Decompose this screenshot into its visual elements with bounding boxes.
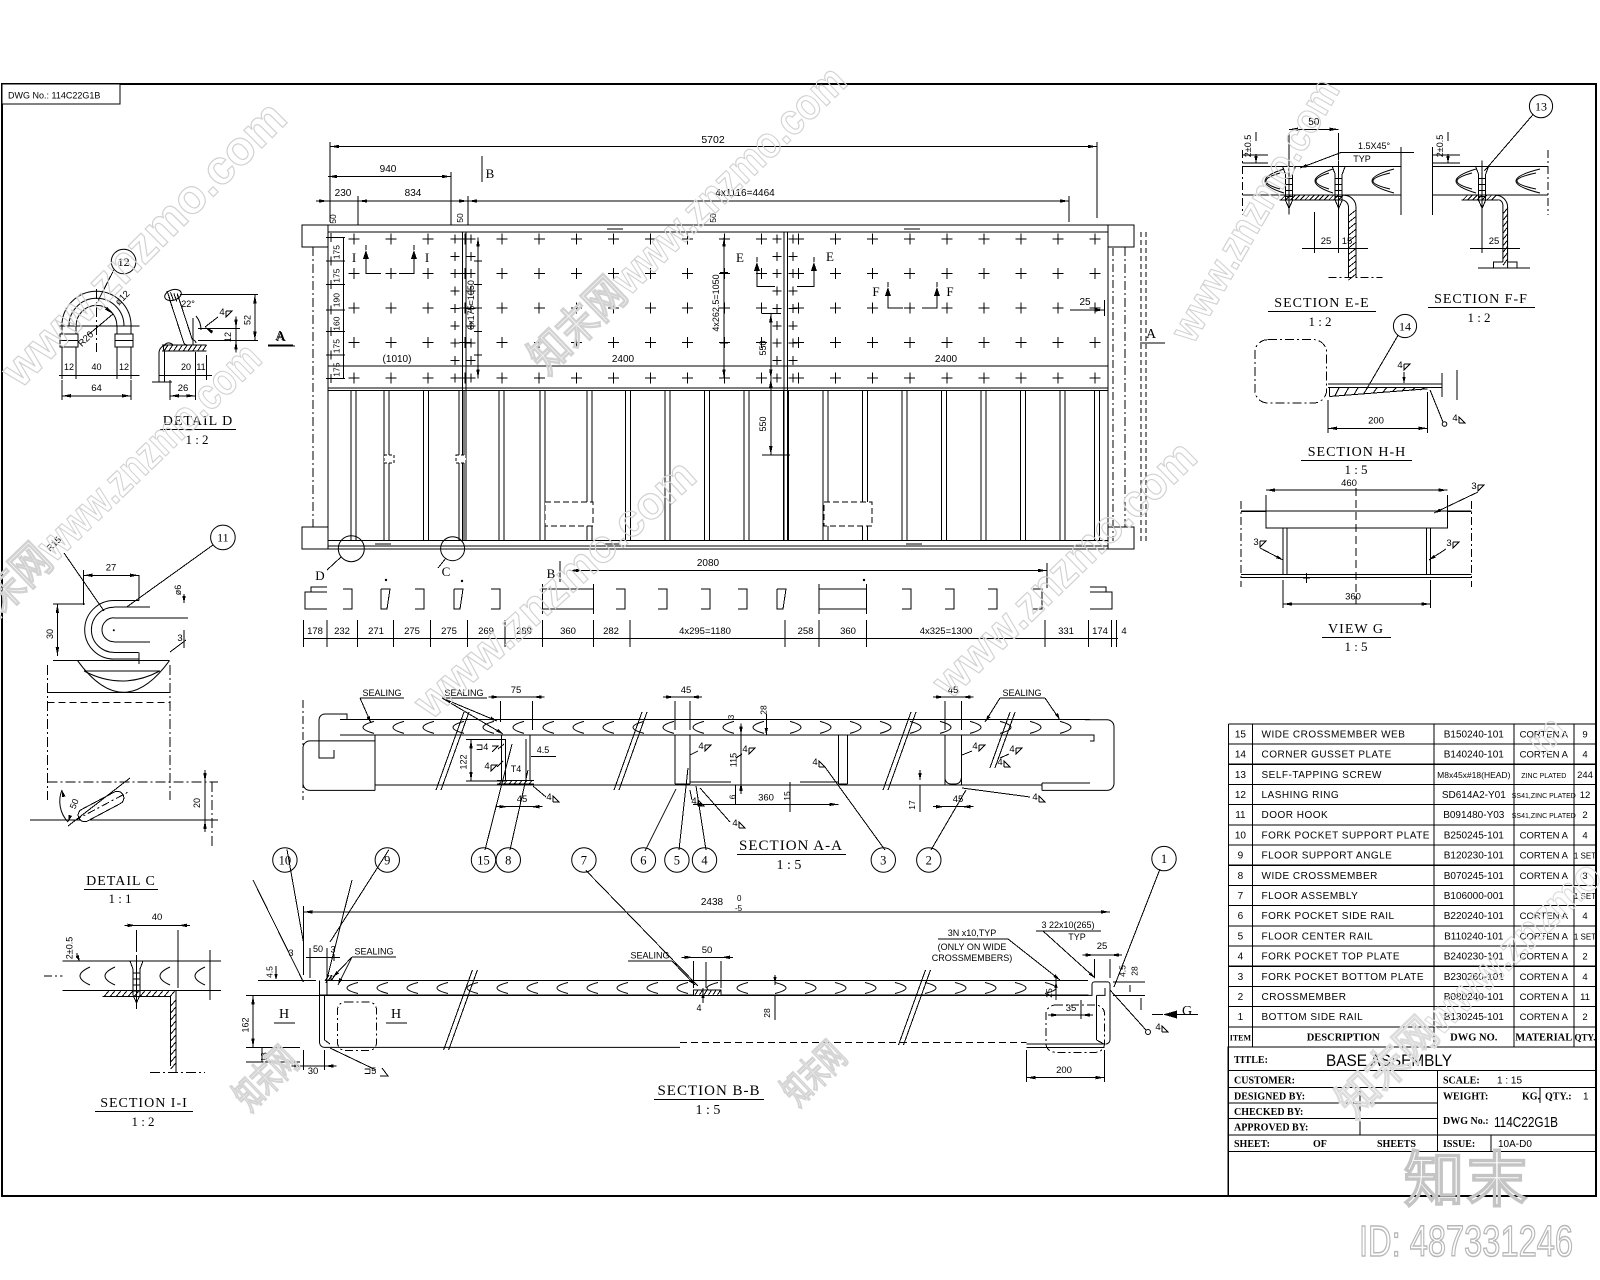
svg-text:⊐4: ⊐4	[476, 742, 489, 752]
svg-text:3N x10,TYP: 3N x10,TYP	[948, 928, 997, 938]
svg-text:360: 360	[1345, 592, 1361, 603]
view G weld symbols 3	[1253, 481, 1484, 560]
door hook detail drawing	[53, 575, 188, 692]
svg-text:B140240-101: B140240-101	[1444, 750, 1504, 761]
svg-text:SECTION F-F: SECTION F-F	[1434, 292, 1528, 307]
svg-text:3: 3	[1446, 538, 1451, 549]
svg-text:3 22x10(265): 3 22x10(265)	[1041, 920, 1094, 930]
svg-text:2±0.5: 2±0.5	[65, 937, 75, 959]
svg-text:C: C	[442, 564, 451, 579]
svg-text:230: 230	[335, 188, 352, 199]
svg-text:4: 4	[1452, 413, 1457, 424]
svg-text:H: H	[279, 1007, 289, 1022]
svg-text:4: 4	[972, 741, 977, 752]
svg-text:F: F	[872, 284, 879, 299]
section cut F-F markers	[872, 282, 953, 308]
svg-text:4: 4	[732, 818, 737, 829]
svg-text:4: 4	[219, 307, 224, 318]
svg-text:7: 7	[581, 854, 587, 868]
plan view - floor assembly outline	[328, 225, 1108, 549]
svg-text:CHECKED BY:: CHECKED BY:	[1234, 1107, 1303, 1118]
balloon 12	[98, 249, 136, 300]
svg-text:FORK POCKET BOTTOM PLATE: FORK POCKET BOTTOM PLATE	[1262, 972, 1425, 983]
plan labels 1010 2400 2400	[383, 354, 958, 365]
svg-text:(ONLY ON WIDE: (ONLY ON WIDE	[938, 942, 1007, 952]
section B-B balloon 1	[1114, 846, 1176, 987]
detail D side dims 20 11 26	[159, 352, 212, 400]
svg-text:KG.: KG.	[1522, 1092, 1541, 1103]
svg-text:64: 64	[91, 383, 102, 394]
svg-text:SECTION B-B: SECTION B-B	[657, 1083, 760, 1099]
svg-text:12: 12	[64, 362, 74, 372]
svg-text:940: 940	[380, 164, 397, 175]
section A-A crossmember cut right	[907, 685, 1045, 812]
view G drawing	[1241, 478, 1472, 604]
svg-text:知末: 知末	[1404, 1147, 1530, 1214]
svg-text:SELF-TAPPING SCREW: SELF-TAPPING SCREW	[1262, 770, 1383, 781]
svg-text:25: 25	[1044, 988, 1054, 998]
plan sheet joint lines	[463, 232, 788, 541]
svg-text:550: 550	[758, 340, 768, 355]
svg-text:1 : 5: 1 : 5	[1344, 639, 1367, 654]
section E-E dims	[1243, 117, 1414, 253]
section H-H drawing	[1255, 340, 1465, 427]
svg-text:35: 35	[1066, 1003, 1077, 1014]
svg-text:3: 3	[177, 633, 182, 644]
SECTION F-F title	[1428, 292, 1535, 325]
section B-B left dims 3 50 3 4.5 162 13 30 weld5	[241, 944, 389, 1077]
svg-text:FLOOR CENTER RAIL: FLOOR CENTER RAIL	[1262, 931, 1374, 942]
svg-text:2: 2	[1582, 1012, 1587, 1023]
section cut I-I markers	[352, 245, 429, 274]
svg-text:CORTEN A: CORTEN A	[1520, 972, 1569, 983]
svg-text:4x262.5=1050: 4x262.5=1050	[711, 274, 721, 331]
svg-text:11: 11	[1580, 992, 1590, 1003]
svg-text:14: 14	[1235, 750, 1247, 761]
svg-text:MATERIAL: MATERIAL	[1515, 1032, 1572, 1043]
svg-text:B150240-101: B150240-101	[1444, 729, 1504, 740]
detail C drawing (screw through floor into angle)	[44, 950, 221, 1072]
svg-text:SD614A2-Y01: SD614A2-Y01	[1442, 790, 1506, 801]
svg-text:QTY.:: QTY.:	[1545, 1092, 1572, 1103]
section F-F drawing	[1432, 147, 1548, 268]
svg-text:4: 4	[1121, 626, 1126, 637]
svg-text:15: 15	[477, 854, 490, 868]
svg-text:40: 40	[152, 912, 163, 923]
svg-text:4: 4	[484, 761, 489, 772]
svg-text:1: 1	[1238, 1012, 1244, 1023]
svg-text:25: 25	[1489, 236, 1500, 247]
section A-A fork pocket side rail cuts and 360 dim	[663, 685, 847, 829]
plan fork pocket hidden rectangles	[384, 455, 872, 526]
svg-text:50: 50	[702, 945, 713, 956]
svg-text:6: 6	[1238, 911, 1244, 922]
svg-text:G: G	[1182, 1004, 1192, 1019]
svg-text:2080: 2080	[697, 558, 720, 569]
section A-A break marks	[436, 712, 1015, 790]
svg-text:5: 5	[674, 854, 680, 868]
detail D dims 12 40 12 64	[59, 362, 139, 400]
DETAIL D title	[160, 414, 236, 447]
svg-text:DESIGNED BY:: DESIGNED BY:	[1234, 1092, 1305, 1103]
svg-text:A: A	[276, 330, 287, 345]
lashing ring position detail	[30, 665, 218, 846]
svg-text:ø6: ø6	[173, 585, 183, 596]
detail circle D on bottom rail	[315, 536, 364, 583]
svg-text:SEALING: SEALING	[1002, 688, 1041, 698]
section A-A dims 75 122 4.5 45 at wide crossmember	[459, 685, 560, 808]
plan left dimension column 175/190/160	[326, 214, 345, 378]
svg-text:ITEM: ITEM	[1230, 1033, 1252, 1042]
svg-text:E: E	[826, 249, 834, 264]
svg-text:DETAIL C: DETAIL C	[86, 874, 156, 889]
svg-text:FORK POCKET SUPPORT PLATE: FORK POCKET SUPPORT PLATE	[1262, 830, 1430, 841]
svg-text:OF: OF	[1313, 1139, 1327, 1150]
plan internal vertical dims 6x175 4x262.5 550 550	[466, 237, 790, 455]
svg-text:22°: 22°	[181, 299, 195, 309]
svg-text:SECTION A-A: SECTION A-A	[739, 838, 843, 854]
svg-text:CROSSMEMBER: CROSSMEMBER	[1262, 992, 1347, 1003]
VIEW G title	[1322, 622, 1391, 654]
plan right side dim 25 and A marker	[1070, 232, 1165, 541]
svg-text:CORTEN A: CORTEN A	[1520, 851, 1569, 862]
svg-text:SHEET:: SHEET:	[1234, 1139, 1270, 1150]
svg-text:QTY.: QTY.	[1575, 1032, 1596, 1042]
svg-text:4: 4	[997, 757, 1002, 768]
DETAIL C title	[84, 874, 158, 906]
svg-text:5: 5	[1238, 931, 1244, 942]
section B-B dim 2438	[303, 894, 1110, 975]
svg-text:SS41,ZINC PLATED: SS41,ZINC PLATED	[1512, 813, 1576, 820]
svg-text:4: 4	[1009, 744, 1014, 755]
svg-text:13: 13	[1535, 100, 1547, 114]
title block	[1228, 1047, 1596, 1196]
svg-text:162: 162	[241, 1017, 251, 1032]
svg-text:25: 25	[1321, 236, 1332, 247]
svg-text:4: 4	[1032, 792, 1037, 803]
svg-text:3: 3	[1238, 972, 1244, 983]
svg-text:4: 4	[1582, 972, 1587, 983]
svg-text:TYP: TYP	[1068, 932, 1086, 942]
svg-text:F: F	[946, 284, 953, 299]
svg-text:550: 550	[758, 416, 768, 431]
svg-text:I: I	[352, 250, 356, 265]
svg-text:115: 115	[729, 753, 739, 767]
section B-B SEALING left label	[333, 947, 396, 986]
plan weld dashes on rails	[375, 229, 922, 544]
svg-text:460: 460	[1341, 478, 1357, 489]
svg-text:175: 175	[332, 339, 342, 353]
svg-text:11: 11	[217, 531, 229, 545]
svg-text:9: 9	[1582, 729, 1587, 740]
door hook dims 27 30 R15 diam6 3	[45, 535, 186, 657]
SECTION B-B title	[654, 1083, 764, 1118]
svg-text:TITLE:: TITLE:	[1234, 1055, 1268, 1066]
svg-text:12: 12	[1580, 790, 1591, 801]
svg-text:B: B	[486, 166, 495, 181]
svg-text:-5: -5	[735, 904, 743, 913]
section A-A left side rail profile	[303, 700, 375, 800]
section B-B right dims and notes	[932, 920, 1198, 1082]
svg-text:BOTTOM SIDE RAIL: BOTTOM SIDE RAIL	[1262, 1012, 1364, 1023]
svg-text:1 : 2: 1 : 2	[131, 1114, 154, 1129]
svg-text:12: 12	[1235, 790, 1247, 801]
svg-text:1 : 1: 1 : 1	[108, 891, 131, 906]
section B-B left end rail	[303, 975, 680, 1051]
svg-text:50: 50	[313, 944, 323, 954]
section B-B H markers	[274, 1007, 407, 1023]
svg-text:B070245-101: B070245-101	[1444, 871, 1504, 882]
svg-text:FORK POCKET TOP PLATE: FORK POCKET TOP PLATE	[1262, 952, 1401, 963]
svg-text:28: 28	[762, 1008, 772, 1018]
balloon 13	[1484, 95, 1552, 171]
svg-text:DWG No.:: DWG No.:	[1443, 1116, 1489, 1127]
SECTION H-H title	[1301, 445, 1412, 477]
svg-text:360: 360	[840, 626, 856, 637]
svg-text:1 : 5: 1 : 5	[1344, 462, 1367, 477]
svg-text:14: 14	[1399, 319, 1411, 333]
svg-text:WIDE CROSSMEMBER WEB: WIDE CROSSMEMBER WEB	[1262, 729, 1406, 740]
svg-text:2: 2	[1582, 952, 1587, 963]
svg-text:12: 12	[119, 362, 129, 372]
svg-text:E: E	[736, 250, 744, 265]
svg-text:I: I	[425, 250, 429, 265]
svg-text:4.5: 4.5	[537, 745, 550, 755]
svg-text:4: 4	[696, 1003, 701, 1013]
svg-text:8: 8	[1238, 871, 1244, 882]
svg-text:M8x45x#18(HEAD): M8x45x#18(HEAD)	[1437, 770, 1510, 780]
svg-text:4: 4	[742, 744, 747, 755]
detail D side view (hook bolt)	[152, 288, 207, 382]
svg-text:DESCRIPTION: DESCRIPTION	[1307, 1032, 1380, 1043]
svg-text:6: 6	[640, 854, 646, 868]
svg-text:2400: 2400	[612, 354, 635, 365]
svg-text:175: 175	[332, 268, 342, 282]
svg-text:25: 25	[1097, 941, 1108, 952]
section cut E-E markers	[736, 249, 834, 287]
SECTION E-E title	[1268, 296, 1376, 329]
svg-text:28: 28	[758, 705, 768, 715]
svg-text:TYP: TYP	[1353, 154, 1371, 164]
svg-text:15: 15	[1235, 729, 1247, 740]
svg-text:360: 360	[758, 793, 774, 804]
svg-text:B106000-001: B106000-001	[1444, 891, 1504, 902]
svg-text:2: 2	[1582, 810, 1587, 821]
svg-text:2438: 2438	[701, 897, 724, 908]
svg-text:282: 282	[603, 626, 619, 637]
svg-text:275: 275	[404, 626, 420, 637]
svg-text:15: 15	[1342, 236, 1353, 247]
svg-text:160: 160	[332, 316, 342, 330]
svg-text:1 : 2: 1 : 2	[1467, 310, 1490, 325]
svg-text:40: 40	[91, 362, 101, 372]
left A marker	[268, 329, 293, 345]
balloon 11	[126, 525, 235, 607]
svg-text:D: D	[315, 568, 324, 583]
section cut B top	[482, 156, 495, 182]
svg-text:8: 8	[505, 854, 511, 868]
svg-text:SEALING: SEALING	[362, 688, 401, 698]
svg-text:4: 4	[698, 741, 703, 752]
svg-text:3: 3	[1471, 481, 1476, 492]
svg-text:CORTEN A: CORTEN A	[1520, 992, 1569, 1003]
svg-text:190: 190	[332, 293, 342, 307]
dimension 2080	[570, 558, 1048, 588]
svg-text:7: 7	[1238, 891, 1244, 902]
svg-text:331: 331	[1058, 626, 1074, 637]
svg-text:SS41,ZINC PLATED: SS41,ZINC PLATED	[1512, 793, 1576, 800]
section B-B floor band	[320, 981, 1089, 996]
svg-text:4: 4	[701, 854, 708, 868]
svg-text:200: 200	[1368, 416, 1384, 427]
svg-text:5702: 5702	[701, 134, 725, 146]
svg-text:APPROVED BY:: APPROVED BY:	[1234, 1123, 1308, 1134]
svg-text:3: 3	[880, 854, 886, 868]
section H-H dim 200	[1328, 392, 1428, 433]
svg-text:FLOOR ASSEMBLY: FLOOR ASSEMBLY	[1262, 891, 1359, 902]
svg-text:45: 45	[681, 685, 692, 696]
svg-text:275: 275	[441, 626, 457, 637]
SECTION I-I title	[95, 1096, 193, 1129]
svg-text:6x175=1050: 6x175=1050	[466, 280, 476, 330]
svg-text:20: 20	[192, 798, 202, 808]
svg-text:114C22G1B: 114C22G1B	[1494, 1114, 1558, 1131]
svg-text:4x295=1180: 4x295=1180	[679, 626, 731, 637]
svg-text:A: A	[1146, 327, 1157, 342]
svg-text:30: 30	[308, 1066, 319, 1077]
SECTION A-A title	[737, 838, 846, 873]
svg-text:244: 244	[1577, 770, 1593, 781]
svg-text:4: 4	[546, 792, 551, 803]
section E-E drawing	[1243, 147, 1401, 280]
detail C dims 40 2pm0.5	[65, 912, 190, 988]
svg-text:B120230-101: B120230-101	[1444, 851, 1504, 862]
svg-text:1 : 5: 1 : 5	[777, 858, 802, 873]
svg-text:1 : 2: 1 : 2	[1308, 314, 1331, 329]
svg-text:B250245-101: B250245-101	[1444, 830, 1504, 841]
svg-text:LASHING RING: LASHING RING	[1262, 790, 1340, 801]
svg-text:3: 3	[1253, 537, 1258, 548]
section A-A SEALING labels	[360, 688, 1060, 734]
svg-text:SECTION H-H: SECTION H-H	[1308, 445, 1407, 460]
bottom dimension chain	[303, 620, 1127, 647]
svg-text:WIDE CROSSMEMBER: WIDE CROSSMEMBER	[1262, 871, 1378, 882]
svg-text:ZINC PLATED: ZINC PLATED	[1521, 773, 1566, 780]
svg-text:175: 175	[332, 362, 342, 376]
section A-A bottom line	[375, 784, 1042, 786]
svg-text:1: 1	[1161, 852, 1167, 866]
section A-A floor band with sealing chevrons	[340, 720, 1090, 735]
svg-text:SEALING: SEALING	[630, 951, 669, 961]
svg-text:VIEW G: VIEW G	[1328, 622, 1384, 637]
view G dim 360	[1283, 580, 1431, 608]
svg-text:1 : 5: 1 : 5	[696, 1103, 721, 1118]
section cut B bottom	[547, 561, 560, 582]
svg-text:CROSSMEMBERS): CROSSMEMBERS)	[932, 953, 1013, 963]
svg-text:CORNER GUSSET PLATE: CORNER GUSSET PLATE	[1262, 750, 1392, 761]
svg-text:258: 258	[798, 626, 814, 637]
svg-text:CORTEN A: CORTEN A	[1520, 830, 1569, 841]
svg-text:9: 9	[1238, 851, 1244, 862]
svg-text:200: 200	[1056, 1065, 1072, 1076]
section B-B bottom lines	[680, 1043, 1105, 1048]
svg-text:(1010): (1010)	[383, 354, 412, 365]
svg-text:4: 4	[812, 757, 817, 768]
svg-text:25: 25	[1079, 297, 1091, 308]
bottom-view crossmember brackets row	[305, 579, 1112, 614]
plan dimension 940	[328, 164, 451, 225]
svg-text:4: 4	[1155, 1022, 1160, 1033]
svg-text:SEALING: SEALING	[354, 947, 393, 957]
section A-A right side rail profile	[1042, 720, 1114, 791]
svg-text:30: 30	[45, 629, 55, 639]
svg-text:1 : 15: 1 : 15	[1497, 1076, 1522, 1087]
section B-B center sealing patch	[628, 945, 777, 1020]
plan top dimension 5702	[330, 134, 1097, 222]
svg-text:SCALE:: SCALE:	[1443, 1076, 1480, 1087]
svg-text:178: 178	[307, 626, 323, 637]
svg-text:20: 20	[181, 362, 191, 372]
svg-text:CUSTOMER:: CUSTOMER:	[1234, 1076, 1295, 1087]
plan crossmember webs (lower half verticals)	[351, 391, 1100, 541]
svg-text:50: 50	[455, 213, 465, 223]
plan dimensions 230 834 4x1116	[316, 188, 1069, 225]
svg-text:52: 52	[243, 315, 253, 325]
svg-text:0: 0	[737, 894, 742, 903]
svg-text:H: H	[391, 1007, 401, 1022]
svg-text:28: 28	[1130, 966, 1140, 976]
svg-text:2±0.5: 2±0.5	[1243, 135, 1253, 157]
section A-A wide crossmember cut with web T4	[497, 735, 534, 784]
section A-A balloons row	[273, 744, 966, 986]
section B-B balloon leaders from above	[253, 880, 352, 983]
detail D side view dims 52 12 4 weld	[180, 294, 258, 352]
svg-text:4: 4	[691, 796, 696, 807]
svg-text:122: 122	[459, 754, 469, 769]
svg-text:11: 11	[1235, 810, 1246, 821]
svg-text:232: 232	[334, 626, 350, 637]
section B-B break marks	[444, 970, 931, 1050]
svg-text:SECTION E-E: SECTION E-E	[1274, 296, 1369, 311]
svg-text:B220240-101: B220240-101	[1444, 911, 1504, 922]
parts list table	[1228, 724, 1596, 1047]
svg-text:CORTEN A: CORTEN A	[1520, 1012, 1569, 1023]
DWG number box	[2, 84, 120, 104]
svg-text:4: 4	[1582, 750, 1587, 761]
svg-text:4.5: 4.5	[265, 966, 275, 978]
detail circle C on bottom rail	[438, 537, 465, 579]
plan + hole grid	[327, 233, 1101, 384]
svg-text:27: 27	[106, 563, 117, 574]
svg-text:2: 2	[926, 854, 932, 868]
svg-text:WEIGHT:: WEIGHT:	[1443, 1092, 1488, 1103]
svg-text:2±0.5: 2±0.5	[1435, 135, 1445, 157]
A view arrow label	[268, 330, 295, 346]
svg-text:4: 4	[1238, 952, 1244, 963]
section F-F dims	[1432, 132, 1520, 253]
svg-text:75: 75	[511, 685, 522, 696]
svg-text:DOOR HOOK: DOOR HOOK	[1262, 810, 1329, 821]
svg-text:T4: T4	[511, 764, 522, 774]
balloon 14	[1366, 314, 1417, 390]
detail D U-bolt front view	[59, 289, 139, 375]
svg-text:174: 174	[1092, 626, 1108, 637]
svg-text:10: 10	[1235, 830, 1247, 841]
svg-text:4: 4	[1582, 830, 1587, 841]
svg-text:2400: 2400	[935, 354, 958, 365]
svg-text:271: 271	[368, 626, 384, 637]
svg-text:1: 1	[1583, 1092, 1589, 1103]
